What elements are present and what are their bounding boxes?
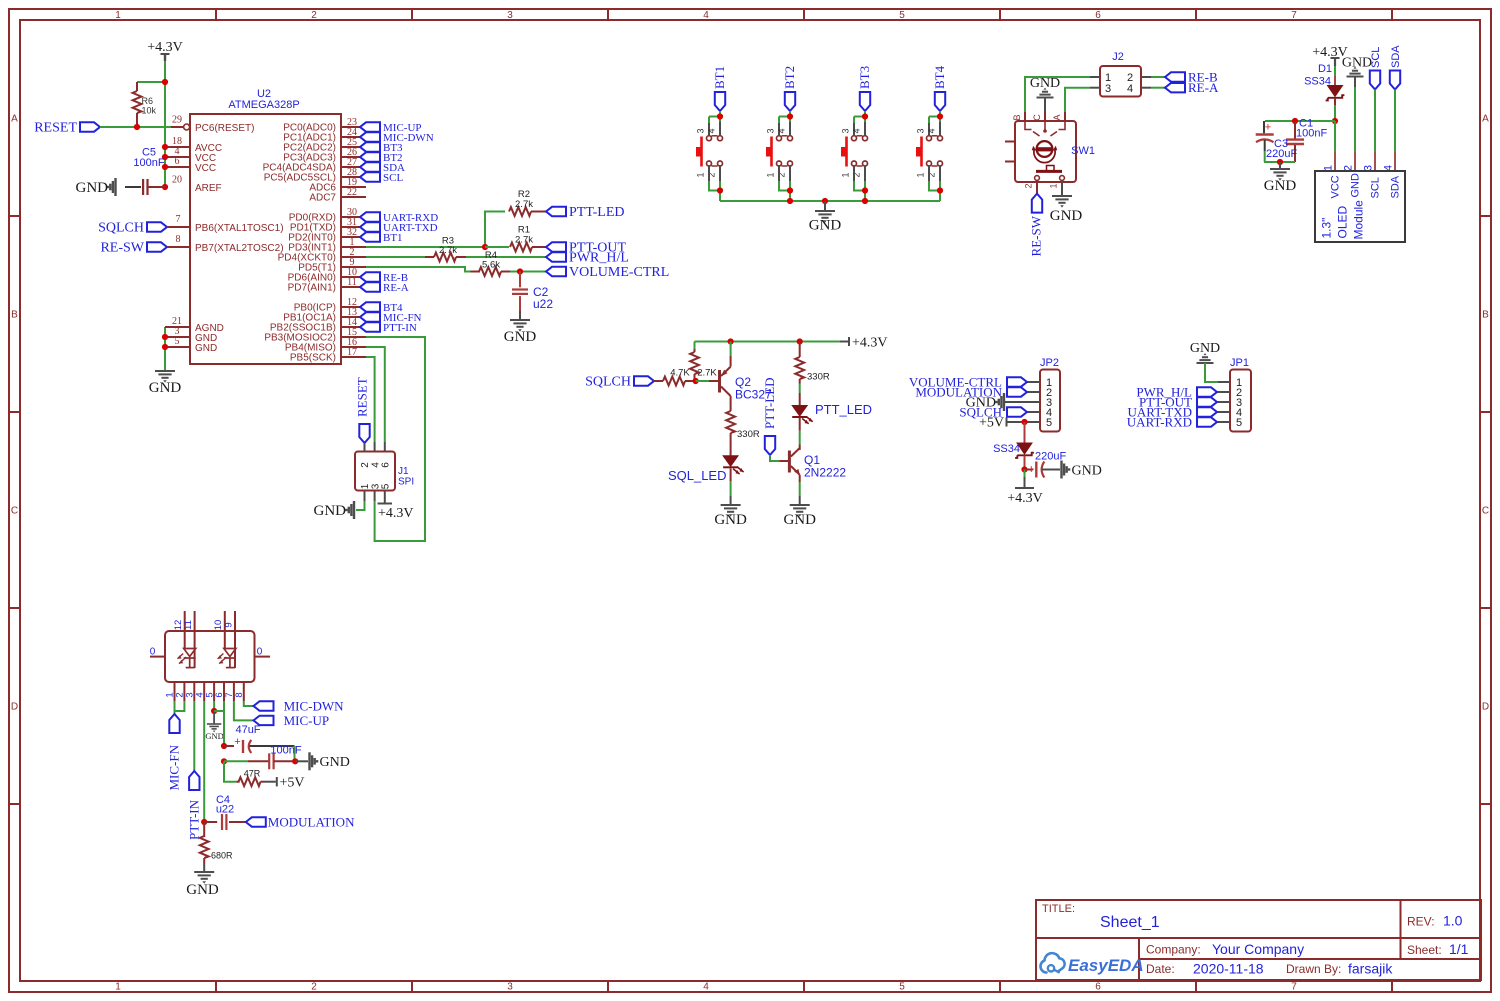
svg-text:SQLCH: SQLCH: [585, 375, 631, 390]
mic IC side stub left: [150, 647, 165, 658]
svg-text:BT4: BT4: [932, 65, 947, 89]
svg-text:ADC7: ADC7: [309, 193, 336, 204]
pin 16 lead: [341, 337, 366, 348]
svg-text:B: B: [11, 310, 18, 321]
svg-text:BT2: BT2: [782, 66, 797, 89]
pin 2 lead: [341, 247, 366, 258]
svg-text:D: D: [11, 702, 18, 713]
net flag RE-A: [360, 282, 409, 294]
ground flag right of 220uF: [1062, 461, 1102, 479]
svg-text:4: 4: [1127, 83, 1133, 95]
wire rail down to 47R: [224, 761, 236, 781]
resistor R1 2.7k: [510, 225, 546, 252]
svg-text:B: B: [1012, 114, 1022, 120]
svg-text:2: 2: [1024, 183, 1034, 188]
wire J2 pin2 to RE-B flag: [1151, 76, 1165, 78]
svg-text:BT1: BT1: [383, 232, 403, 244]
capacitor C3 220uF (polarized): [1256, 121, 1298, 162]
U2 right pin names: [263, 123, 337, 364]
svg-text:2N2222: 2N2222: [804, 466, 846, 480]
ground below SQL_LED: [714, 469, 747, 529]
node junction C4: [201, 819, 207, 825]
svg-text:330R: 330R: [807, 372, 830, 383]
svg-text:u22: u22: [533, 297, 553, 311]
net flag PTT-IN: [186, 771, 201, 840]
ground flag at SW1 C: [1030, 76, 1060, 112]
pin 25 lead: [341, 137, 360, 148]
wire base: [696, 380, 709, 382]
ground flag above JP1: [1190, 341, 1220, 363]
wire D1 to C1 node: [1334, 105, 1336, 121]
net flag SCL: [360, 172, 403, 184]
ground below C2: [504, 311, 537, 345]
svg-text:SW1: SW1: [1071, 145, 1095, 157]
net flag PTT-LED (Q1 base): [762, 377, 777, 455]
resistor 330R (Q1 collector): [795, 342, 830, 406]
svg-text:1.0: 1.0: [1443, 913, 1463, 929]
resistor 4.7K: [654, 368, 696, 386]
SW1 pin1 ground: [1050, 181, 1083, 225]
pin 1 lead: [341, 237, 366, 248]
net flag SQLCH (Q2): [585, 375, 654, 390]
LED SQL_LED: [668, 456, 744, 483]
svg-text:GND: GND: [504, 329, 537, 345]
svg-text:GND: GND: [1342, 56, 1372, 71]
power flag +5V (JP2): [979, 416, 1007, 431]
svg-text:SCL: SCL: [1370, 47, 1382, 68]
power flag +5V (mic): [277, 776, 305, 791]
svg-text:1: 1: [115, 10, 121, 21]
svg-text:6: 6: [1095, 982, 1101, 993]
svg-text:1: 1: [916, 172, 926, 177]
svg-text:2.7k: 2.7k: [515, 235, 533, 246]
pin 28 lead: [341, 167, 360, 178]
svg-text:A: A: [1482, 114, 1489, 125]
svg-text:17: 17: [347, 347, 357, 358]
svg-text:JP1: JP1: [1230, 357, 1249, 369]
svg-text:4: 4: [777, 128, 787, 133]
resistor 330R (Q2 collector): [726, 411, 760, 456]
IC U2 ATMEGA328P body: [190, 88, 341, 364]
svg-text:4: 4: [852, 128, 862, 133]
svg-text:GND: GND: [783, 512, 816, 528]
node junction BT3 bottom: [862, 187, 868, 193]
svg-text:GND: GND: [714, 512, 747, 528]
net flag PTT-OUT: [546, 241, 626, 256]
svg-text:3: 3: [696, 128, 706, 133]
svg-text:farsajik: farsajik: [1348, 961, 1393, 977]
power flag +4.3V (rail): [840, 336, 888, 351]
ground symbol below U2: [149, 371, 182, 396]
svg-text:A: A: [11, 114, 18, 125]
net flag PTT-OUT (JP1): [1139, 394, 1217, 409]
svg-text:D: D: [1482, 702, 1489, 713]
ground symbol button rail: [809, 201, 842, 234]
pin 19 lead: [341, 177, 366, 188]
net flag RE-B: [1165, 69, 1218, 84]
svg-text:PB6(XTAL1TOSC1): PB6(XTAL1TOSC1): [195, 223, 284, 234]
net flag SQLCH (JP2): [959, 404, 1027, 419]
net flag PWR_H/L: [546, 251, 629, 266]
wire pin2 jog: [175, 701, 185, 711]
svg-text:8: 8: [234, 692, 245, 697]
wire R3 to PWR_H/L: [466, 256, 546, 258]
diode SS34 (5V): [993, 422, 1034, 470]
pin 20 AREF node: [162, 175, 182, 191]
svg-text:3: 3: [766, 128, 776, 133]
svg-text:1: 1: [115, 982, 121, 993]
capacitor 100nF (mic): [248, 745, 302, 770]
mic IC internal LED right: [218, 649, 236, 668]
svg-text:+4.3V: +4.3V: [378, 506, 414, 521]
svg-text:C: C: [11, 506, 18, 517]
svg-text:GND: GND: [76, 180, 109, 196]
svg-text:680R: 680R: [211, 851, 233, 861]
svg-text:GND: GND: [195, 343, 217, 354]
svg-text:PB5(SCK): PB5(SCK): [290, 353, 336, 364]
svg-text:4: 4: [707, 128, 717, 133]
optocoupler/mic IC body: [165, 631, 255, 682]
pin 13 lead: [341, 307, 360, 318]
net flag MIC-UP: [254, 713, 330, 728]
net flag UART-RXD (JP1): [1127, 414, 1217, 429]
svg-text:VCC: VCC: [1330, 175, 1342, 198]
node junction BT3 flag: [862, 113, 868, 119]
svg-text:2.7k: 2.7k: [439, 245, 457, 256]
svg-text:5: 5: [899, 982, 905, 993]
net flag RESET: [34, 121, 100, 136]
connector JP2 body: [1040, 357, 1060, 432]
node junction cap gnd: [1277, 159, 1283, 165]
switch BT1 pushbutton body: [696, 122, 723, 181]
svg-text:GND: GND: [1050, 208, 1083, 224]
node junction 100nF left: [221, 758, 227, 764]
svg-text:+4.3V: +4.3V: [852, 336, 888, 351]
net flag RE-SW at PB7: [100, 234, 190, 256]
node junction rail BT3: [862, 198, 868, 204]
wire cap ground rail: [1264, 161, 1295, 163]
node junction BT1 bottom: [717, 187, 723, 193]
svg-text:11: 11: [183, 620, 194, 630]
svg-text:29: 29: [172, 115, 182, 126]
net flag SQLCH at PB6: [98, 214, 190, 236]
svg-text:2: 2: [311, 982, 317, 993]
svg-text:11: 11: [347, 277, 357, 288]
svg-text:SS34: SS34: [993, 443, 1020, 455]
svg-text:Sheet_1: Sheet_1: [1100, 914, 1160, 931]
svg-text:C: C: [1032, 114, 1042, 121]
node junction SS34/220uF: [1021, 466, 1027, 472]
wire BT1 top: [709, 111, 720, 123]
svg-text:2.7K: 2.7K: [697, 368, 717, 379]
wire rail to 2.7K: [694, 342, 696, 350]
wire BT4 bottom: [929, 181, 940, 201]
power flag +4.3V (top left): [147, 40, 183, 61]
node junction R6/RESET: [134, 124, 140, 130]
J2 pin leads: [1090, 77, 1151, 88]
svg-text:22: 22: [347, 187, 357, 198]
wire node to R1: [485, 246, 509, 248]
svg-text:6: 6: [1095, 10, 1101, 21]
LED PTT_LED: [792, 402, 872, 424]
svg-text:PB7(XTAL2TOSC2): PB7(XTAL2TOSC2): [195, 243, 284, 254]
svg-text:4: 4: [927, 128, 937, 133]
wire R4 to VOLUME-CTRL: [510, 271, 546, 273]
svg-text:PTT_LED: PTT_LED: [815, 402, 872, 417]
U2 ground pins wires: [162, 316, 190, 371]
wire rail to 100nF: [224, 760, 248, 762]
node junction BT2 flag: [787, 113, 793, 119]
wire PB4 to J1 pin6: [366, 347, 385, 442]
svg-text:RE-SW: RE-SW: [100, 241, 144, 256]
power flag +4.3V (OLED): [1312, 45, 1348, 66]
svg-text:SPI: SPI: [398, 477, 414, 488]
svg-text:8: 8: [176, 234, 181, 245]
connector J2 body: [1100, 51, 1141, 97]
capacitor C5 100nF: [125, 179, 165, 195]
wire VCC down to OLED pin1: [1334, 121, 1336, 152]
svg-text:1: 1: [696, 172, 706, 177]
svg-text:GND: GND: [809, 218, 842, 234]
svg-text:0: 0: [150, 647, 156, 658]
svg-text:3: 3: [507, 982, 513, 993]
svg-text:4: 4: [703, 10, 709, 21]
wire PD5 to R4: [366, 267, 471, 272]
pin 30 lead: [341, 207, 360, 218]
switch BT2 pushbutton body: [766, 122, 793, 181]
svg-text:MIC-DWN: MIC-DWN: [284, 698, 345, 713]
svg-text:7: 7: [176, 214, 181, 225]
wire pin3 to PTT-IN: [193, 701, 195, 771]
svg-text:Drawn By:: Drawn By:: [1286, 962, 1341, 976]
wire BT2 bottom: [779, 181, 790, 201]
wire C1 branch: [1265, 120, 1335, 122]
ground flag JP2 pin3: [966, 393, 1004, 411]
resistor R2 2.7k: [509, 189, 546, 216]
node junction pin5 gnd: [211, 708, 217, 714]
svg-text:UART-RXD: UART-RXD: [1127, 414, 1192, 429]
svg-text:100nF: 100nF: [270, 745, 301, 757]
svg-text:PD7(AIN1): PD7(AIN1): [288, 283, 336, 294]
wire OLED pin3: [1374, 90, 1376, 153]
pin 9 lead: [341, 257, 366, 268]
svg-text:Date:: Date:: [1146, 962, 1175, 976]
wire OLED pin4: [1394, 90, 1396, 153]
wire +4.3V rail (transistors): [695, 341, 841, 343]
node junction BT2 bottom: [787, 187, 793, 193]
svg-text:5: 5: [1236, 417, 1242, 429]
pin 32 lead: [341, 227, 360, 238]
mic IC side stub right: [255, 647, 271, 658]
net flag PTT-IN: [360, 322, 417, 334]
wire pin4 to C4 node: [203, 701, 205, 822]
svg-text:RE-SW: RE-SW: [1029, 215, 1044, 256]
svg-text:+: +: [234, 736, 240, 748]
net flag PWR_H/L (JP1): [1136, 384, 1217, 399]
pin 31 lead: [341, 217, 360, 228]
wire pin8 to MIC-DWN: [244, 701, 254, 706]
ground flag mic filter: [295, 752, 350, 770]
net flag MIC-DWN: [360, 132, 434, 144]
OLED module pin leads: [1323, 152, 1396, 171]
svg-text:VOLUME-CTRL: VOLUME-CTRL: [569, 265, 669, 280]
net flag BT2: [782, 66, 797, 111]
JP2 pin leads: [1005, 382, 1040, 422]
svg-text:GND: GND: [1350, 173, 1362, 198]
svg-text:100nF: 100nF: [1296, 128, 1327, 140]
svg-text:+5V: +5V: [280, 776, 305, 791]
wire pin6 to cap rail: [214, 701, 224, 746]
svg-text:4: 4: [703, 982, 709, 993]
resistor 680R: [200, 822, 233, 864]
node junction 100nF right: [292, 758, 298, 764]
svg-text:330R: 330R: [737, 429, 760, 440]
svg-text:Module: Module: [1352, 200, 1366, 240]
transistor Q2 BC327: [709, 342, 772, 412]
svg-text:47R: 47R: [244, 769, 261, 779]
power flag +4.3V (below SS34): [1007, 470, 1043, 507]
svg-text:SS34: SS34: [1304, 76, 1331, 88]
pin 29 lead with inversion bubble: [171, 115, 190, 131]
svg-text:AREF: AREF: [195, 183, 222, 194]
node junction C2 tap: [517, 268, 523, 274]
wire +4.3V rail to U2 power pins: [164, 61, 166, 187]
pin 11 lead: [341, 277, 360, 288]
ground below Q1: [783, 482, 816, 528]
svg-text:RE-A: RE-A: [383, 282, 409, 294]
net flag UART-TXD: [360, 222, 438, 234]
svg-text:GND: GND: [1264, 178, 1297, 194]
net flag VOLUME-CTRL (JP2): [909, 374, 1027, 389]
svg-text:RESET: RESET: [355, 377, 370, 417]
svg-text:3: 3: [1105, 83, 1111, 95]
node junction rail GND tap: [822, 198, 828, 204]
svg-text:1: 1: [841, 172, 851, 177]
svg-text:ATMEGA328P: ATMEGA328P: [228, 99, 299, 111]
net flag VOLUME-CTRL: [546, 265, 669, 280]
ground below C1/C3: [1264, 162, 1297, 194]
wire PD3 to node: [366, 246, 485, 248]
svg-text:+4.3V: +4.3V: [147, 40, 183, 55]
svg-text:GND: GND: [205, 731, 223, 741]
svg-text:3: 3: [841, 128, 851, 133]
svg-text:6: 6: [381, 462, 392, 468]
node junction VCC: [1332, 118, 1338, 124]
svg-text:PTT-LED: PTT-LED: [762, 377, 777, 429]
capacitor C2 u22: [512, 272, 553, 312]
svg-text:7: 7: [1291, 10, 1297, 21]
net flag MIC-FN: [360, 312, 422, 324]
node junction +5V/SS34: [1021, 419, 1027, 425]
wire J1 pin1 to gnd: [356, 501, 365, 510]
svg-text:REV:: REV:: [1407, 915, 1435, 929]
net flag MIC-UP: [360, 122, 422, 134]
wire BT1 bottom: [709, 181, 720, 201]
capacitor C5 100nF labels: [133, 147, 164, 170]
switch BT3 pushbutton body: [841, 122, 868, 181]
wire pin7 to MIC-UP: [234, 701, 254, 720]
net flag BT4: [360, 302, 403, 314]
power flag +4.3V (J1 pin5): [378, 501, 414, 521]
svg-text:20: 20: [172, 175, 182, 186]
svg-text:5: 5: [1046, 417, 1052, 429]
net flag UART-RXD: [360, 212, 438, 224]
pin 24 lead: [341, 127, 360, 138]
svg-text:EasyEDA: EasyEDA: [1068, 956, 1144, 975]
svg-text:100nF: 100nF: [133, 157, 164, 169]
wire pin1 to MIC-FN: [174, 701, 176, 714]
transistor Q1 2N2222: [779, 418, 846, 483]
pin 26 lead: [341, 147, 360, 158]
node junction Q2 base: [693, 378, 699, 384]
node junction +4.3V/R6: [162, 79, 168, 85]
svg-text:C: C: [1482, 506, 1489, 517]
svg-text:10k: 10k: [142, 106, 157, 116]
wire JP1 pin1 gnd: [1205, 363, 1230, 382]
title block: [1036, 900, 1481, 980]
mic IC top pins 12/11/10/9: [173, 611, 235, 668]
wire PD4 to R3: [366, 256, 434, 258]
svg-text:SDA: SDA: [1390, 45, 1402, 68]
svg-text:3: 3: [507, 10, 513, 21]
svg-text:5: 5: [175, 336, 180, 347]
EasyEDA logo: [1040, 953, 1143, 975]
svg-text:J1: J1: [398, 466, 409, 477]
svg-text:+: +: [1028, 462, 1035, 476]
svg-text:GND: GND: [1072, 464, 1102, 479]
svg-text:0: 0: [257, 647, 263, 658]
svg-text:SCL: SCL: [383, 172, 403, 184]
svg-text:+: +: [1265, 122, 1271, 134]
wire OLED pin2 gnd: [1354, 87, 1356, 152]
svg-text:SQL_LED: SQL_LED: [668, 468, 727, 483]
JP1 pin leads: [1217, 392, 1230, 422]
diode D1 SS34: [1304, 63, 1344, 105]
net flag RE-SW: [1029, 194, 1044, 257]
pin 18 power lead: [162, 136, 190, 150]
U2 left pin names: [195, 123, 284, 354]
svg-text:J2: J2: [1112, 51, 1124, 63]
node junction Q1 rail: [797, 338, 803, 344]
svg-text:+4.3V: +4.3V: [1007, 491, 1043, 506]
net flag BT4: [932, 65, 947, 111]
svg-text:JP2: JP2: [1040, 357, 1059, 369]
svg-text:4.7K: 4.7K: [670, 368, 690, 379]
rotary encoder SW1 body: [1005, 112, 1095, 189]
node junction BT4 bottom: [937, 187, 943, 193]
svg-text:Company:: Company:: [1146, 943, 1201, 957]
node junction C1: [1292, 118, 1298, 124]
svg-text:RE-A: RE-A: [1188, 80, 1219, 95]
svg-text:PC6(RESET): PC6(RESET): [195, 123, 254, 134]
net flag RE-B: [360, 272, 408, 284]
wire pin5 to gnd: [213, 701, 215, 711]
pin 14 lead: [341, 317, 360, 328]
wire +4.3V to D1: [1334, 66, 1336, 76]
node junction PD3: [482, 244, 488, 250]
wire PB3 to J1 pin3: [366, 337, 425, 541]
pin 22 lead: [341, 187, 366, 198]
svg-text:A: A: [1052, 114, 1062, 120]
svg-text:47uF: 47uF: [235, 724, 260, 736]
svg-text:1: 1: [766, 172, 776, 177]
ground flag GND at AREF: [76, 178, 116, 196]
net flag BT1: [360, 232, 403, 244]
svg-text:SCL: SCL: [1370, 177, 1382, 198]
wire R6 top branch: [137, 81, 165, 83]
wire PB5 to J1 pin4: [366, 357, 375, 442]
pin 17 lead: [341, 347, 366, 358]
